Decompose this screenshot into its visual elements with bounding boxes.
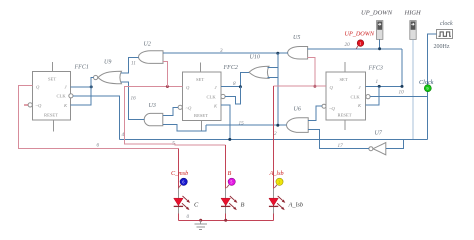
- wire net2 FFC3 Q stub: [315, 85, 326, 87]
- wire net20 right corner down: [401, 49, 403, 87]
- svg-text:C_msb: C_msb: [171, 170, 188, 177]
- svg-text:~Q: ~Q: [329, 106, 335, 111]
- svg-text:1: 1: [376, 79, 379, 85]
- LED A_lsb: [269, 189, 303, 214]
- probe A_lsb yellow: [269, 170, 284, 188]
- wire U3 input1 from FFC2 ~Q: [163, 107, 178, 115]
- switch HIGH: [404, 10, 422, 40]
- junction net2: [313, 85, 316, 88]
- svg-text:SET: SET: [196, 77, 204, 82]
- wire net2 U5 input2 branch: [308, 57, 315, 86]
- wire net8 FFC2 J: [221, 86, 240, 88]
- svg-text:U7: U7: [375, 131, 383, 137]
- wire net5 FFC2 Q pink: [125, 87, 226, 145]
- svg-text:~Q: ~Q: [36, 103, 42, 108]
- svg-text:CLK: CLK: [351, 94, 361, 99]
- probe Clock green: [419, 79, 434, 92]
- svg-text:11: 11: [131, 61, 136, 67]
- svg-text:0: 0: [187, 214, 190, 220]
- wire long clock line: [120, 138, 428, 140]
- wire clock to FFC3 CLK: [370, 96, 428, 98]
- gate U9 NOR (mirrored, output left): [94, 60, 122, 84]
- wire vertical net3 to U10/U8: [277, 53, 279, 125]
- wire U9 output to J: [91, 78, 93, 87]
- wire U10 input stubs: [268, 66, 278, 68]
- svg-text:6: 6: [182, 180, 184, 185]
- svg-text:B: B: [241, 202, 245, 209]
- wire net2 horizontal: [274, 85, 315, 87]
- flip-flop FFC1: [28, 62, 89, 132]
- junction K clockline: [228, 138, 231, 141]
- wire HIGH drop: [412, 39, 414, 139]
- svg-text:U9: U9: [104, 60, 111, 66]
- wire UP_DOWN switch drop: [379, 39, 381, 48]
- probe UP_DOWN red: [345, 31, 375, 49]
- svg-text:U6: U6: [294, 107, 301, 113]
- svg-text:clock: clock: [440, 21, 453, 27]
- svg-text:4: 4: [122, 131, 125, 138]
- gate U2 AND (mirrored, output left): [139, 42, 163, 64]
- wire U9 input1 from U2 output: [121, 57, 139, 73]
- junction: [401, 85, 404, 88]
- wire U7 input segment: [386, 148, 393, 150]
- svg-text:200Hz: 200Hz: [434, 44, 450, 50]
- gate U3 AND (mirrored, output left): [144, 103, 163, 126]
- LED B: [221, 189, 245, 214]
- svg-text:FFC3: FFC3: [368, 66, 383, 72]
- svg-text:5: 5: [230, 180, 232, 185]
- svg-text:6: 6: [97, 143, 100, 149]
- svg-text:U5: U5: [293, 35, 300, 41]
- svg-text:8: 8: [233, 81, 236, 87]
- svg-text:1: 1: [359, 41, 361, 46]
- ground: [194, 220, 207, 229]
- wire FFC3 J stub: [366, 85, 380, 87]
- junction net5 U2 branch: [166, 85, 169, 88]
- svg-text:17: 17: [338, 143, 344, 149]
- svg-text:U3: U3: [149, 103, 156, 109]
- svg-text:3: 3: [220, 48, 223, 54]
- junction: [378, 47, 381, 50]
- wire FFC1 J stub: [71, 86, 92, 88]
- wire U2 input2 branch: [163, 61, 167, 86]
- svg-text:U10: U10: [250, 55, 260, 61]
- svg-text:2: 2: [274, 131, 277, 137]
- junction J/K FFC3: [378, 85, 381, 88]
- svg-text:SET: SET: [48, 77, 56, 82]
- probe C_msb blue: [171, 170, 188, 188]
- svg-text:~Q: ~Q: [186, 105, 192, 110]
- wire U10 output to net8: [240, 72, 249, 86]
- junction net15: [276, 124, 279, 127]
- svg-text:SET: SET: [340, 77, 348, 82]
- junction bus ground: [199, 219, 202, 222]
- svg-text:5: 5: [172, 140, 175, 146]
- svg-text:RESET: RESET: [44, 113, 58, 118]
- wire FFC2 CLK jog to net8: [225, 87, 240, 104]
- svg-text:A_lsb: A_lsb: [288, 202, 304, 209]
- wire net5 LED B column: [225, 145, 227, 220]
- wire net2 LED A column: [273, 86, 275, 220]
- wire net6 FFC1 Q pink: [18, 85, 178, 148]
- wire FFC1 ~Q stub: [24, 104, 28, 106]
- svg-text:16: 16: [131, 96, 137, 102]
- svg-text:15: 15: [239, 121, 245, 127]
- wire clock pin: [428, 34, 437, 97]
- junction bus B: [224, 219, 227, 222]
- wire FFC2 K down: [221, 105, 230, 139]
- wire FFC1 K tie: [71, 87, 92, 105]
- junction FFC1 J: [90, 85, 93, 88]
- clock source 200Hz: [434, 21, 453, 50]
- wire FFC1 CLK: [73, 96, 120, 140]
- LED C: [174, 189, 199, 214]
- svg-text:C: C: [194, 202, 199, 209]
- svg-text:2: 2: [278, 180, 280, 185]
- svg-text:20: 20: [345, 42, 351, 48]
- svg-text:9: 9: [427, 86, 429, 91]
- svg-text:B: B: [228, 170, 232, 177]
- probe B magenta: [226, 170, 235, 188]
- wire U6 input2 net17: [308, 130, 369, 149]
- svg-text:A_lsb: A_lsb: [269, 170, 284, 177]
- wire net3 U5 output to U2 input1: [163, 52, 288, 54]
- junction net8: [239, 85, 242, 88]
- svg-text:FFC2: FFC2: [223, 65, 238, 71]
- gate U5 AND (mirrored, output left): [288, 35, 308, 59]
- svg-text:CLK: CLK: [207, 94, 217, 99]
- wire jog to U7 input: [386, 139, 404, 148]
- wire net15 horizontal: [206, 124, 287, 126]
- svg-text:UP_DOWN: UP_DOWN: [345, 31, 375, 38]
- svg-text:FFC1: FFC1: [74, 65, 89, 71]
- svg-text:CLK: CLK: [57, 94, 67, 99]
- flip-flop FFC3: [322, 62, 383, 130]
- wire bottom bus: [178, 219, 273, 221]
- svg-text:RESET: RESET: [194, 113, 208, 118]
- svg-text:U2: U2: [144, 42, 151, 48]
- svg-text:RESET: RESET: [338, 113, 352, 118]
- svg-text:10: 10: [399, 90, 405, 96]
- flip-flop FFC2: [178, 63, 238, 131]
- gate U6 AND (mirrored, output left): [287, 107, 309, 133]
- svg-text:HIGH: HIGH: [404, 10, 422, 17]
- switch UP_DOWN: [361, 10, 393, 40]
- wire U6 input1 from FFC3 ~Q: [308, 106, 322, 121]
- wire U9 input2 net16 to U3 output: [121, 82, 144, 120]
- svg-text:UP_DOWN: UP_DOWN: [361, 10, 393, 17]
- gate U7 inverter (mirrored, output left): [369, 131, 386, 155]
- wire FFC3 K tie: [366, 86, 380, 104]
- wire net20 UP_DOWN horizontal: [308, 48, 402, 50]
- wire net6 LED C column: [177, 148, 179, 220]
- gate U10 OR (mirrored, output left): [249, 55, 269, 79]
- wire to FFC3 J: [379, 85, 402, 87]
- wire clock branch down: [427, 97, 429, 140]
- wire net15 U3.in2 jog: [163, 124, 206, 131]
- junction net3: [276, 52, 279, 55]
